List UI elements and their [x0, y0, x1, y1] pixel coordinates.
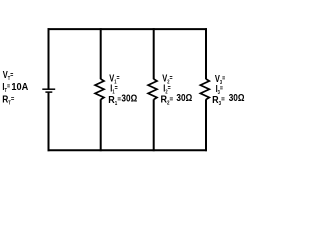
svg-text:10A: 10A: [11, 82, 28, 93]
battery VT: [42, 89, 55, 92]
svg-text:30Ω: 30Ω: [176, 92, 192, 103]
wire branch 3 lower lead: [205, 99, 207, 151]
label I2=: [163, 82, 171, 95]
wire branch 1 lower lead: [100, 99, 102, 151]
resistor R2: [148, 79, 157, 100]
label R1=: [108, 94, 121, 107]
label RT=: [2, 94, 14, 106]
resistor R3: [200, 79, 209, 100]
label IT=: [2, 81, 10, 94]
svg-text:30Ω: 30Ω: [121, 93, 137, 104]
wire branch 2 upper lead: [153, 28, 155, 79]
label I3=: [216, 83, 224, 96]
label I1=: [110, 82, 118, 95]
label R2=: [161, 94, 174, 107]
wire left branch lower (battery bottom lead): [48, 92, 50, 151]
svg-text:30Ω: 30Ω: [229, 92, 245, 103]
wire branch 2 lower lead: [153, 99, 155, 151]
label value 30ohm branch2: [176, 92, 192, 103]
label value 30ohm branch1: [121, 93, 137, 104]
wire top bus: [48, 28, 208, 30]
label V1=: [109, 72, 120, 85]
label V3=: [215, 73, 226, 86]
resistor R1: [95, 79, 104, 100]
label value 10A: [11, 82, 28, 93]
label VT=: [3, 69, 14, 82]
wire bottom bus: [48, 149, 208, 151]
wire branch 1 upper lead: [100, 28, 102, 79]
label value 30ohm branch3: [229, 92, 245, 103]
wire left branch upper (battery top lead): [48, 28, 50, 89]
label V2=: [162, 72, 173, 85]
wire branch 3 upper lead (right edge): [205, 28, 207, 79]
label R3=: [212, 94, 225, 107]
